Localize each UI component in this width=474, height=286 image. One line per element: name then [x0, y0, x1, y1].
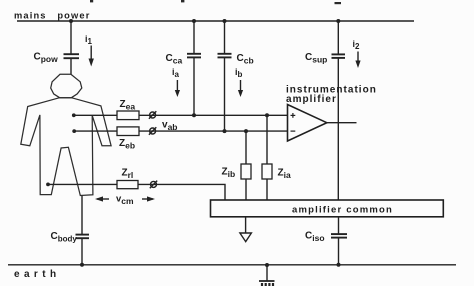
current arrow i2: [353, 39, 361, 68]
svg-text:Zib: Zib: [222, 167, 236, 180]
electrode node rl (right leg): [46, 183, 50, 187]
svg-text:Cpow: Cpow: [34, 52, 59, 65]
wire: Z_ea to amplifier + input: [139, 114, 288, 116]
junction: wire a / Z_ia: [265, 113, 269, 117]
wire: earth line: [8, 264, 456, 266]
svg-text:vcm: vcm: [116, 194, 134, 207]
label v_cm with arrows: [95, 194, 155, 207]
svg-text:Cca: Cca: [166, 53, 183, 66]
junction: C_body / earth: [80, 263, 84, 267]
svg-text:amplifier: amplifier: [286, 94, 337, 105]
current arrow i_a: [172, 67, 180, 97]
impedance Z_ea: [117, 111, 139, 120]
svg-text:vab: vab: [162, 120, 177, 133]
wire: Z_ia to amplifier common: [266, 179, 268, 200]
capacitor C_cb: [218, 21, 232, 131]
svg-text:mains power: mains power: [14, 11, 90, 21]
junction: mains / C_ca: [192, 19, 196, 23]
svg-text:Csup: Csup: [305, 52, 327, 65]
capacitor C_iso: [331, 217, 347, 265]
svg-text:earth: earth: [14, 269, 60, 280]
junction: wire a / C_ca: [192, 113, 196, 117]
wire: node a to Z_ea: [74, 114, 117, 116]
op-amp U1: instrumentation amplifier triangle: [288, 105, 327, 142]
electrode symbol on wire a: [149, 111, 156, 119]
wire: mains power line: [17, 20, 414, 22]
amplifier common bar: [211, 200, 444, 217]
capacitor C_sup: [332, 21, 346, 200]
svg-text:amplifier common: amplifier common: [292, 205, 393, 216]
wire: amplifier output: [327, 122, 357, 124]
impedance Z_ib: [241, 164, 251, 179]
svg-text:Zea: Zea: [120, 99, 136, 112]
junction: mains / C_pow: [69, 19, 73, 23]
impedance Z_ia: [262, 164, 272, 179]
svg-text:Zeb: Zeb: [119, 138, 135, 151]
ground symbol: [259, 263, 275, 286]
human body (patient) : torso, arms, legs: [21, 98, 111, 196]
svg-text:Ciso: Ciso: [305, 231, 325, 244]
wire: Z_rl to amplifier common: [138, 184, 225, 200]
junction: mains / C_cb: [223, 19, 227, 23]
impedance Z_rl: [117, 181, 138, 189]
wire: Z_eb to amplifier - input: [139, 130, 288, 132]
wire: wire b down to Z_ib: [245, 131, 247, 164]
impedance Z_eb: [117, 127, 139, 136]
wire: Z_ib to amplifier common: [245, 179, 247, 200]
current arrow i1: [85, 34, 94, 67]
capacitor C_body: [76, 196, 90, 265]
junction: mains / C_sup: [336, 19, 340, 23]
human body (patient) : head: [51, 74, 82, 97]
electrode node b (chest lower): [72, 129, 76, 133]
svg-text:Zrl: Zrl: [122, 168, 134, 181]
wire: wire a down to Z_ia: [266, 115, 268, 164]
electrode node a (chest upper): [72, 113, 76, 117]
svg-text:Zia: Zia: [278, 168, 291, 181]
current arrow i_b: [235, 67, 243, 97]
junction: wire b / Z_ib: [244, 129, 248, 133]
op-amp + input mark: [291, 113, 296, 118]
capacitor C_ca: [187, 21, 201, 115]
junction: wire b / C_cb: [223, 129, 227, 133]
electrode symbol on wire b: [149, 127, 156, 135]
electrode symbol on wire rl: [150, 181, 157, 189]
wire: node rl to Z_rl: [48, 183, 117, 185]
capacitor C_pow: [64, 21, 80, 74]
common (reference) symbol below bar: [240, 217, 252, 242]
svg-text:Ccb: Ccb: [237, 53, 254, 66]
op-amp - input mark: [291, 130, 296, 132]
junction: C_iso / earth: [337, 263, 341, 267]
wire: node b to Z_eb: [74, 130, 117, 132]
